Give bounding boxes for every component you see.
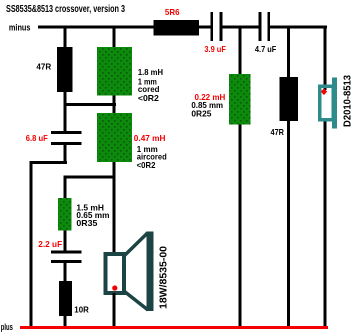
- capacitor 2.2uF: [51, 251, 82, 264]
- resistor 5R6: [154, 20, 200, 36]
- svg-text:47R: 47R: [36, 62, 51, 72]
- svg-text:0.47 mH: 0.47 mH: [134, 133, 166, 143]
- wire jog1 horizontal: [64, 103, 117, 106]
- wire woofer to plus: [113, 293, 116, 326]
- svg-text:3.9 uF: 3.9 uF: [204, 44, 226, 54]
- speaker 18W/8535-00 woofer: [106, 232, 154, 312]
- wire jog2 horizontal: [64, 176, 116, 179]
- svg-text:<0R2: <0R2: [137, 160, 156, 170]
- svg-text:SS8535&8513 crossover, version: SS8535&8513 crossover, version 3: [6, 4, 125, 15]
- svg-text:4.7 uF: 4.7 uF: [255, 44, 276, 54]
- wire jog2 down to 1.5mH: [64, 179, 67, 199]
- node red dot woofer plus terminal: [112, 285, 117, 290]
- svg-text:10R: 10R: [74, 305, 89, 315]
- wire 0.22mH branch down from rail: [239, 29, 242, 75]
- svg-text:minus: minus: [9, 22, 31, 32]
- wire left rail down to plus: [30, 161, 33, 326]
- wire 1.5mH to 2.2uF: [64, 231, 67, 251]
- svg-text:0R25: 0R25: [191, 109, 211, 119]
- svg-text:D2010-8513: D2010-8513: [342, 75, 353, 127]
- wire 47R to jog1: [64, 92, 67, 103]
- wire minus rail segment B: [221, 26, 260, 29]
- wire jog1 to 6.8uF: [64, 106, 67, 131]
- wire 1.8mH branch down from rail: [113, 29, 116, 48]
- wire tweeter to plus: [324, 122, 327, 327]
- svg-text:plus: plus: [1, 322, 13, 332]
- wire 47R right to plus: [287, 121, 290, 326]
- wire 0.47mH bottom down to woofer: [113, 162, 116, 252]
- svg-text:5R6: 5R6: [165, 7, 180, 17]
- capacitor 6.8uF: [51, 131, 82, 145]
- inductor 1.8mH: [97, 47, 132, 96]
- wire 47R right branch down from rail: [287, 29, 290, 78]
- capacitor 3.9uF: [211, 12, 223, 41]
- capacitor 4.7uF: [259, 12, 271, 41]
- wire minus rail segment C: [270, 26, 328, 29]
- wire minus rail segment A: [38, 26, 212, 29]
- svg-text:6.8 uF: 6.8 uF: [26, 133, 48, 143]
- wire jog3 horizontal: [30, 161, 68, 164]
- svg-text:18W/8535-00: 18W/8535-00: [159, 246, 170, 309]
- wire 2.2uF to 10R: [64, 263, 67, 281]
- inductor 1.5mH: [58, 198, 72, 231]
- wire plus rail (red): [20, 326, 328, 329]
- tweeter D2010-8513: [320, 78, 337, 129]
- resistor 47R left: [57, 47, 73, 92]
- inductor 0.47mH: [97, 113, 132, 162]
- wire right rail down to tweeter: [324, 26, 327, 91]
- svg-text:47R: 47R: [271, 127, 285, 137]
- wire 1.8mH bottom to 0.47mH top: [113, 96, 116, 114]
- svg-text:0R35: 0R35: [76, 218, 97, 228]
- svg-text:<0R2: <0R2: [138, 93, 159, 103]
- resistor 10R: [59, 281, 72, 316]
- wire 6.8uF bottom to jog3: [64, 145, 67, 164]
- resistor 47R right: [280, 77, 299, 121]
- node red diamond tweeter plus terminal: [321, 88, 327, 95]
- svg-text:2.2 uF: 2.2 uF: [38, 239, 62, 249]
- inductor 0.22mH: [229, 74, 251, 125]
- wire 0.22mH to plus: [239, 125, 242, 327]
- wire left branch down from rail: [64, 29, 67, 48]
- wire 10R to plus: [64, 316, 67, 326]
